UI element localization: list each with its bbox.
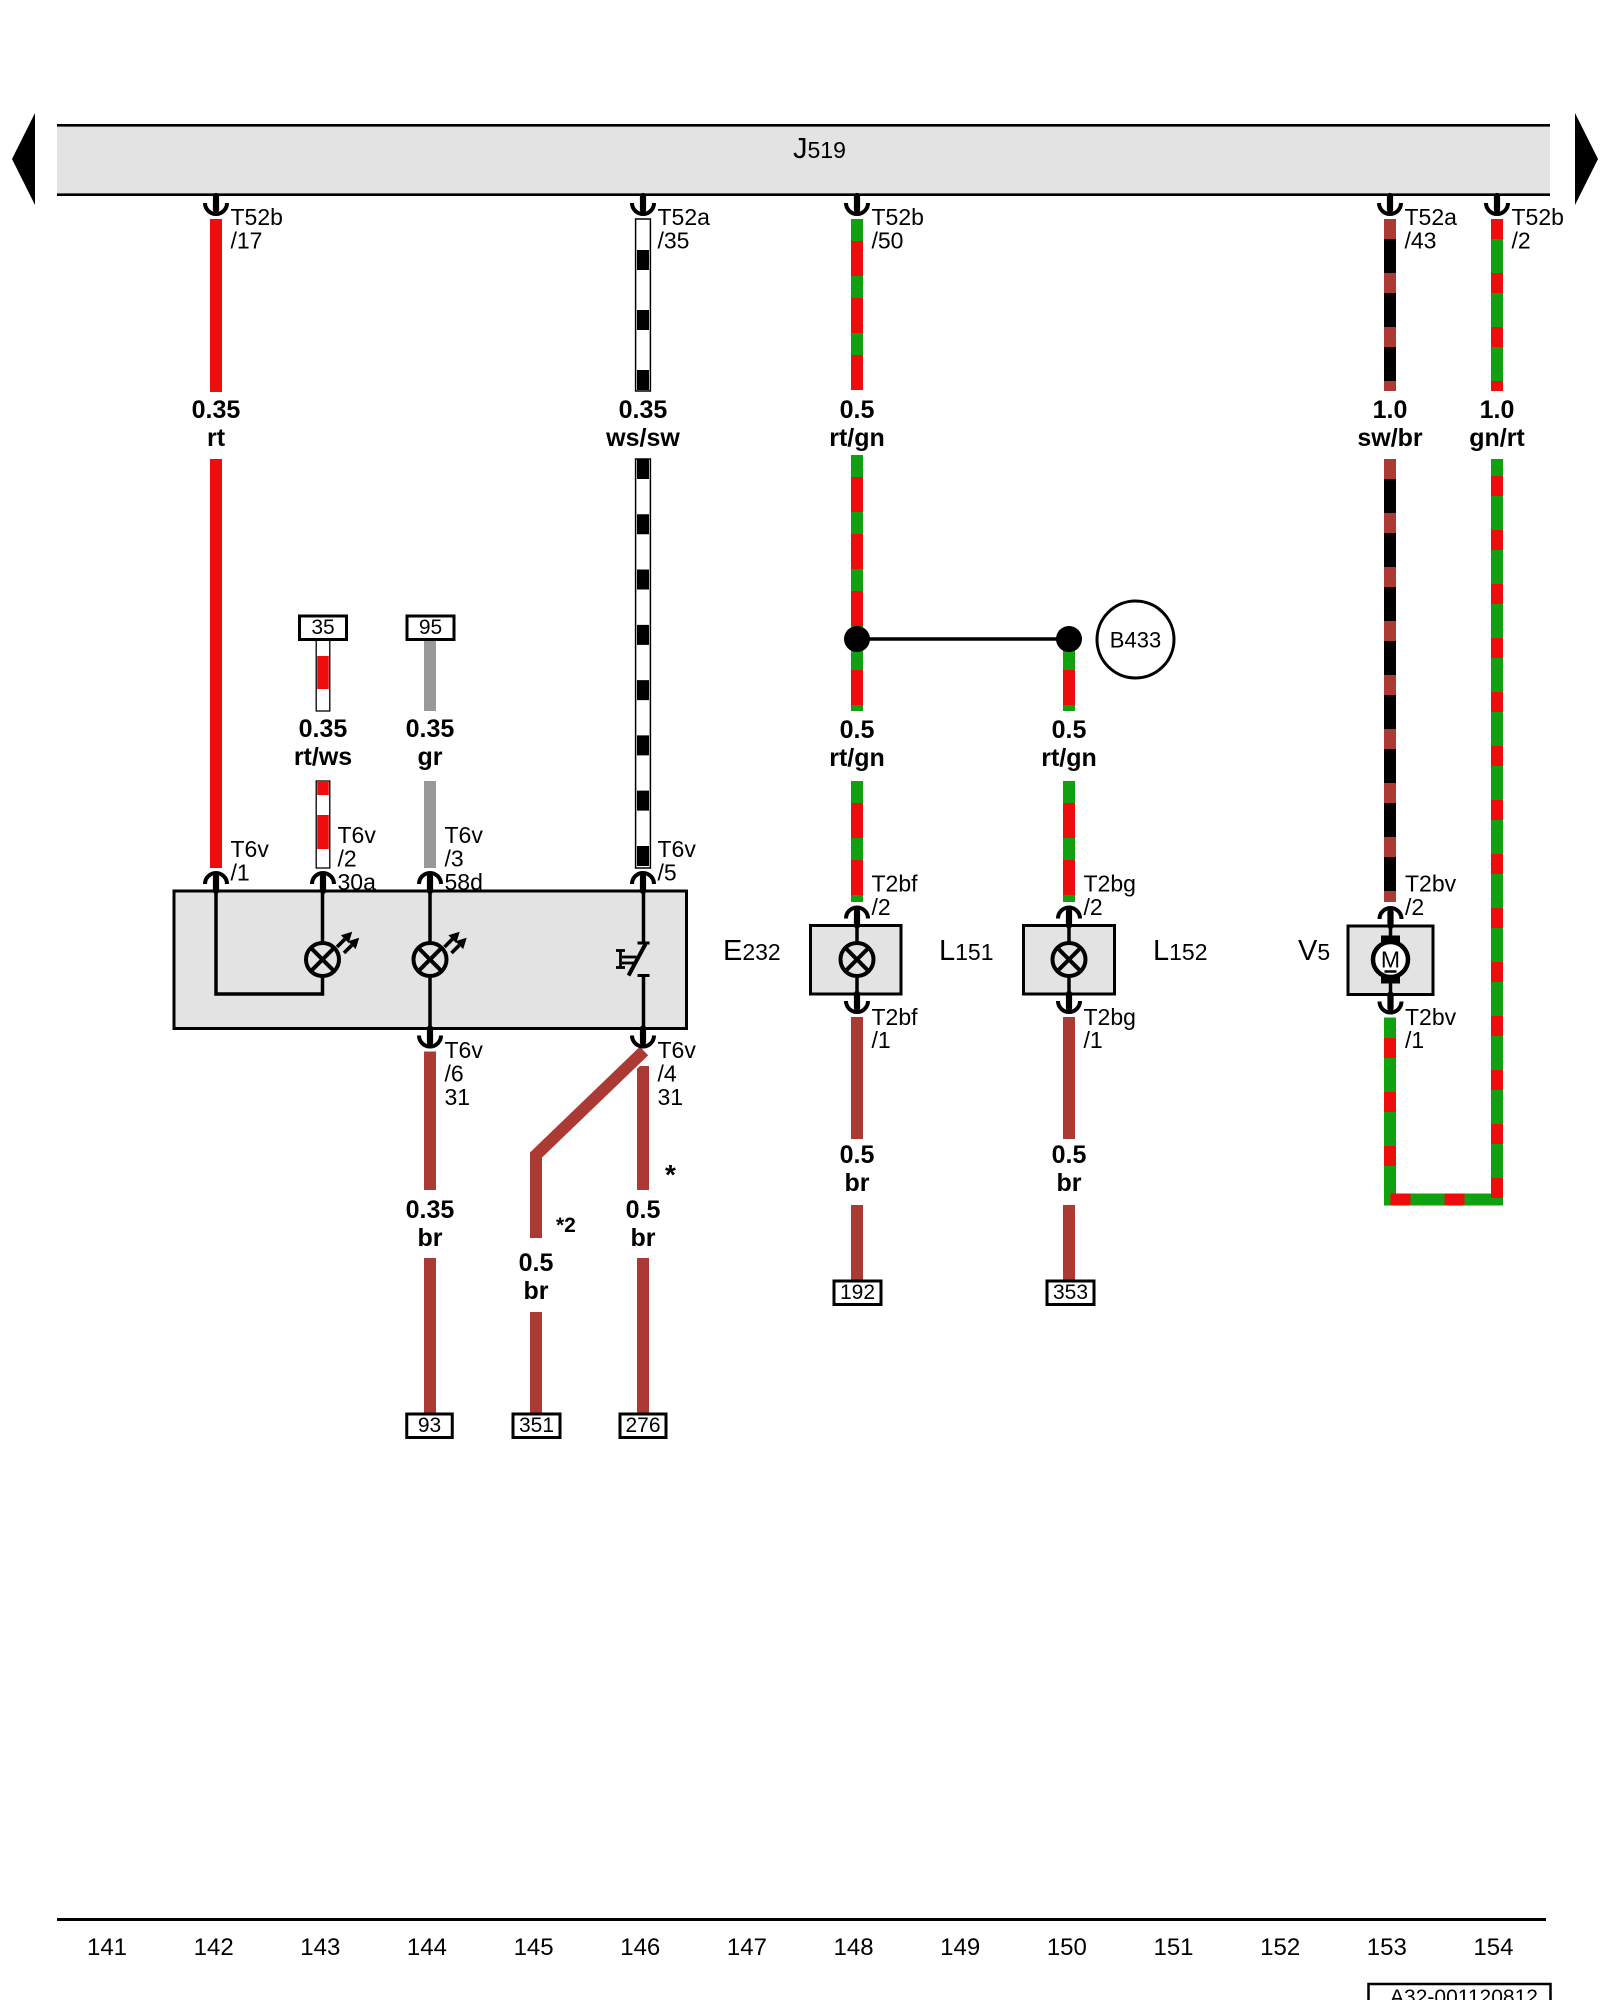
svg-text:T6v: T6v <box>231 836 270 862</box>
svg-text:0.5: 0.5 <box>840 396 875 424</box>
svg-text:T6v: T6v <box>338 822 377 848</box>
svg-text:149: 149 <box>940 1934 980 1961</box>
svg-text:152: 152 <box>1260 1934 1300 1961</box>
svg-text:/43: /43 <box>1405 228 1437 254</box>
svg-text:0.5: 0.5 <box>626 1196 661 1224</box>
svg-text:T6v: T6v <box>658 836 697 862</box>
svg-text:144: 144 <box>407 1934 447 1961</box>
svg-text:M: M <box>1381 947 1400 973</box>
svg-text:T2bg: T2bg <box>1084 871 1136 897</box>
svg-text:*2: *2 <box>556 1214 576 1237</box>
svg-text:154: 154 <box>1473 1934 1513 1961</box>
svg-text:0.5: 0.5 <box>519 1249 554 1277</box>
svg-text:br: br <box>631 1224 656 1252</box>
svg-text:0.35: 0.35 <box>406 715 455 743</box>
svg-text:E232: E232 <box>723 935 781 967</box>
svg-text:/50: /50 <box>872 228 904 254</box>
svg-text:T6v: T6v <box>445 1037 484 1063</box>
svg-text:*: * <box>665 1159 676 1190</box>
svg-text:/1: /1 <box>231 860 250 886</box>
svg-text:rt/ws: rt/ws <box>294 743 352 771</box>
svg-text:B433: B433 <box>1110 628 1161 653</box>
svg-text:T6v: T6v <box>445 822 484 848</box>
svg-text:276: 276 <box>625 1414 660 1437</box>
svg-text:0.35: 0.35 <box>192 396 241 424</box>
svg-text:148: 148 <box>834 1934 874 1961</box>
svg-text:35: 35 <box>311 616 334 639</box>
svg-text:br: br <box>418 1224 443 1252</box>
svg-text:/2: /2 <box>1084 894 1103 920</box>
svg-text:/2: /2 <box>338 846 357 872</box>
svg-text:br: br <box>1057 1169 1082 1197</box>
svg-text:/3: /3 <box>445 846 464 872</box>
svg-text:/4: /4 <box>658 1061 677 1087</box>
svg-text:31: 31 <box>658 1084 684 1110</box>
svg-text:rt/gn: rt/gn <box>1041 744 1097 772</box>
svg-text:0.35: 0.35 <box>406 1196 455 1224</box>
svg-text:147: 147 <box>727 1934 767 1961</box>
svg-text:J519: J519 <box>793 133 846 165</box>
svg-text:0.35: 0.35 <box>299 715 348 743</box>
svg-text:151: 151 <box>1153 1934 1193 1961</box>
svg-text:/35: /35 <box>658 228 690 254</box>
svg-text:/1: /1 <box>1405 1027 1424 1053</box>
svg-text:0.5: 0.5 <box>1052 716 1087 744</box>
svg-text:353: 353 <box>1053 1281 1088 1304</box>
svg-text:/2: /2 <box>1512 228 1531 254</box>
svg-text:146: 146 <box>620 1934 660 1961</box>
svg-text:rt/gn: rt/gn <box>829 744 885 772</box>
svg-text:58d: 58d <box>445 869 483 895</box>
svg-text:rt/gn: rt/gn <box>829 424 885 452</box>
svg-text:ws/sw: ws/sw <box>605 424 680 452</box>
svg-text:/1: /1 <box>1084 1027 1103 1053</box>
svg-text:141: 141 <box>87 1934 127 1961</box>
svg-text:/1: /1 <box>872 1027 891 1053</box>
svg-text:br: br <box>845 1169 870 1197</box>
svg-text:/2: /2 <box>872 894 891 920</box>
svg-text:T52b: T52b <box>231 204 283 230</box>
svg-text:L151: L151 <box>939 935 994 967</box>
svg-text:T6v: T6v <box>658 1037 697 1063</box>
svg-text:1.0: 1.0 <box>1480 396 1515 424</box>
svg-text:gr: gr <box>418 743 443 771</box>
svg-text:145: 145 <box>514 1934 554 1961</box>
svg-text:95: 95 <box>419 616 442 639</box>
svg-text:192: 192 <box>840 1281 875 1304</box>
svg-text:T2bf: T2bf <box>872 871 919 897</box>
svg-text:143: 143 <box>300 1934 340 1961</box>
svg-text:T52b: T52b <box>1512 204 1564 230</box>
svg-text:0.5: 0.5 <box>1052 1141 1087 1169</box>
svg-text:A32-001120812: A32-001120812 <box>1390 1986 1538 2000</box>
svg-text:142: 142 <box>194 1934 234 1961</box>
svg-text:/5: /5 <box>658 860 677 886</box>
svg-text:0.35: 0.35 <box>619 396 668 424</box>
svg-text:1.0: 1.0 <box>1373 396 1408 424</box>
svg-text:rt: rt <box>207 424 226 452</box>
svg-text:sw/br: sw/br <box>1357 424 1423 452</box>
svg-text:L152: L152 <box>1153 935 1208 967</box>
svg-text:br: br <box>524 1277 549 1305</box>
svg-text:351: 351 <box>519 1414 554 1437</box>
svg-text:30a: 30a <box>338 869 377 895</box>
svg-text:T52a: T52a <box>658 204 711 230</box>
svg-text:150: 150 <box>1047 1934 1087 1961</box>
svg-text:/17: /17 <box>231 228 263 254</box>
svg-text:T52a: T52a <box>1405 204 1458 230</box>
svg-text:31: 31 <box>445 1084 471 1110</box>
svg-text:V5: V5 <box>1298 935 1330 967</box>
svg-text:/6: /6 <box>445 1061 464 1087</box>
svg-text:/2: /2 <box>1405 894 1424 920</box>
svg-text:0.5: 0.5 <box>840 1141 875 1169</box>
svg-text:T52b: T52b <box>872 204 924 230</box>
svg-text:93: 93 <box>418 1414 441 1437</box>
svg-text:153: 153 <box>1367 1934 1407 1961</box>
svg-text:gn/rt: gn/rt <box>1469 424 1525 452</box>
svg-text:T2bv: T2bv <box>1405 871 1457 897</box>
svg-text:0.5: 0.5 <box>840 716 875 744</box>
